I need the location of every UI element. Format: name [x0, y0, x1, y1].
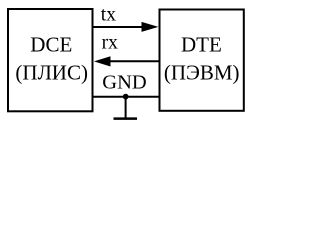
- svg-text:DCE: DCE: [30, 33, 72, 57]
- block DTE (ПЭВМ): [160, 10, 244, 111]
- svg-text:DTE: DTE: [181, 33, 222, 57]
- junction dot on GND wire: [123, 94, 129, 100]
- wire rx (DTE to DCE): [109, 60, 160, 62]
- block DCE (ПЛИС): [8, 9, 93, 111]
- svg-text:rx: rx: [102, 33, 118, 54]
- wire GND (DCE to DTE): [93, 96, 160, 98]
- svg-text:(ПЛИС): (ПЛИС): [15, 61, 88, 85]
- svg-text:GND: GND: [102, 72, 146, 94]
- wire to ground symbol: [125, 97, 127, 119]
- svg-text:tx: tx: [101, 4, 116, 25]
- svg-text:(ПЭВМ): (ПЭВМ): [164, 61, 240, 85]
- wire tx (DCE to DTE): [93, 26, 144, 28]
- arrowhead tx: [142, 22, 159, 32]
- arrowhead rx: [94, 56, 111, 66]
- ground symbol bar: [114, 117, 138, 120]
